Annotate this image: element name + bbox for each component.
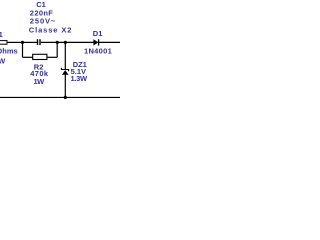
- svg-text:Classe X2: Classe X2: [29, 25, 73, 34]
- svg-text:R1: R1: [0, 30, 3, 39]
- node D (bottom junction): [64, 96, 67, 99]
- svg-text:Ohms: Ohms: [0, 47, 18, 56]
- diode D1: [93, 39, 98, 45]
- svg-text:1.3W: 1.3W: [71, 74, 89, 83]
- node A: [21, 41, 24, 44]
- svg-text:1N4001: 1N4001: [84, 46, 112, 55]
- node B: [56, 41, 59, 44]
- node C: [64, 41, 67, 44]
- resistor R2: [23, 42, 58, 59]
- wire C1 to D1: [41, 41, 94, 43]
- wire node A to C1: [23, 41, 38, 43]
- zener diode DZ1: [61, 68, 68, 75]
- svg-text:1W: 1W: [0, 56, 6, 65]
- resistor R1: [0, 41, 23, 45]
- svg-text:250V~: 250V~: [30, 17, 56, 26]
- wire node C down to DZ1: [64, 42, 66, 69]
- wire D1 to right edge: [99, 41, 120, 43]
- wire DZ1 to bottom rail: [64, 75, 66, 98]
- svg-text:1W: 1W: [34, 77, 46, 86]
- svg-text:D1: D1: [93, 29, 103, 38]
- capacitor C1: [38, 39, 41, 45]
- bottom rail wire: [0, 96, 120, 98]
